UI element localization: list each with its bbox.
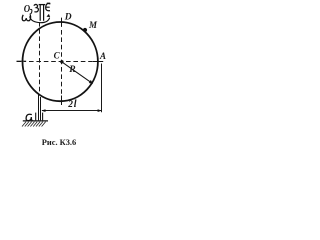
bearing top fork bbox=[39, 5, 46, 21]
svg-text:Рис. К3.6: Рис. К3.6 bbox=[42, 138, 76, 147]
tick at D bbox=[61, 18, 63, 27]
bearing bottom cup bbox=[36, 113, 43, 121]
point M dot bbox=[83, 28, 87, 32]
label O1 bbox=[24, 4, 32, 15]
omega label bbox=[22, 15, 30, 21]
svg-text:O: O bbox=[24, 4, 31, 15]
rotation arrow bbox=[30, 14, 50, 23]
shaft (axis below circle) bbox=[39, 95, 41, 121]
ground line bbox=[23, 120, 48, 122]
center C dot bbox=[60, 60, 63, 63]
tick at bottom rim bbox=[61, 96, 63, 106]
bearing top hatch-left bbox=[34, 4, 39, 12]
axis dashed line bbox=[39, 22, 41, 95]
circle (disk rim) bbox=[23, 22, 98, 101]
svg-text:R: R bbox=[68, 64, 76, 75]
dimension line 2l bbox=[41, 109, 102, 112]
svg-text:A: A bbox=[99, 51, 106, 61]
svg-text:M: M bbox=[88, 20, 98, 30]
svg-text:l: l bbox=[74, 99, 77, 110]
dashed horizontal centerline bbox=[17, 61, 104, 63]
dashed vertical centerline bbox=[61, 18, 63, 105]
tick at left rim bbox=[17, 60, 27, 62]
radius R arrow bbox=[62, 62, 93, 84]
tick at A bbox=[93, 61, 103, 63]
ground hatching bbox=[22, 122, 46, 127]
bearing top hatch-right bbox=[46, 3, 51, 11]
label O2 bbox=[26, 114, 33, 121]
svg-text:C: C bbox=[54, 50, 61, 60]
dimension extension line under A bbox=[101, 64, 103, 113]
svg-text:2: 2 bbox=[67, 100, 73, 110]
svg-text:D: D bbox=[64, 13, 72, 23]
